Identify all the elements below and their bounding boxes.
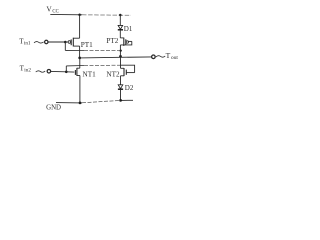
terminal circle Tout: [152, 55, 156, 59]
wire D1 top lead: [119, 15, 121, 25]
wire line1 (Tin1 net to PT2 column): [65, 49, 84, 51]
node Vcc label: [46, 5, 58, 15]
svg-text:D2: D2: [125, 84, 134, 92]
wire Tin1 riser to line1: [64, 42, 66, 50]
terminal Tin2 label: [20, 64, 32, 73]
diode D1: [118, 25, 123, 29]
wire Vcc rail: [50, 13, 82, 15]
junction dot Tin2 node: [65, 71, 68, 74]
wire Tin1 to node: [48, 41, 65, 43]
wire NT1 drain riser: [79, 58, 81, 68]
svg-text:T: T: [166, 51, 171, 60]
wire Tin2 to node: [51, 70, 67, 72]
wire D1 bottom lead: [119, 30, 121, 38]
junction dot GND-NT1: [79, 102, 82, 105]
svg-text:out: out: [171, 55, 178, 61]
svg-text:D1: D1: [124, 25, 133, 33]
svg-text:PT2: PT2: [106, 37, 118, 45]
junction dot output-left: [78, 57, 81, 60]
junction dot Tin1 node: [64, 41, 67, 44]
transistor NT2 (mirrored, diode-connected): [121, 65, 135, 76]
junction dot output-PT2/NT2: [119, 55, 122, 58]
wire D2 bottom lead: [120, 89, 122, 100]
wire PT2 drain drop: [119, 45, 121, 56]
wire GND rail: [56, 102, 82, 104]
wire Tin2 riser to line3: [65, 66, 67, 72]
terminal circle Tin2: [47, 69, 51, 73]
junction dot GND-D2: [119, 99, 122, 102]
svg-text:GND: GND: [46, 105, 61, 112]
terminal circle Tin1: [45, 40, 48, 43]
squiggle Tin2: [36, 71, 46, 73]
junction dot line1 end: [120, 49, 122, 51]
junction dot Vcc-D1: [119, 14, 122, 17]
svg-text:PT1: PT1: [81, 41, 93, 49]
wire PT1 source drop: [79, 15, 81, 39]
squiggle Tin1: [34, 42, 44, 44]
wire Vcc rail right (faint): [82, 14, 131, 17]
wire output line: [80, 57, 152, 58]
squiggle Tout: [156, 56, 165, 58]
wire NT1 source drop: [79, 76, 81, 103]
svg-text:NT1: NT1: [83, 70, 97, 78]
transistor PT2 (mirrored, diode-connected): [120, 38, 132, 46]
diode D2: [118, 85, 123, 89]
terminal Tout label: [166, 51, 179, 61]
terminal Tin1 label: [19, 37, 31, 46]
svg-text:in1: in1: [24, 41, 31, 47]
transistor NT1: [66, 68, 80, 76]
wire NT2 source drop: [120, 76, 122, 85]
transistor PT1: [65, 38, 79, 47]
wire PT1 drain drop: [79, 46, 81, 58]
wire NT2 drain drop from output: [120, 56, 122, 68]
junction dot Vcc-PT1: [78, 13, 81, 16]
svg-text:in2: in2: [24, 68, 31, 74]
wire line3 (Tin2 net to NT2 column): [66, 65, 84, 67]
svg-text:CC: CC: [52, 9, 58, 14]
svg-text:NT2: NT2: [106, 70, 120, 78]
